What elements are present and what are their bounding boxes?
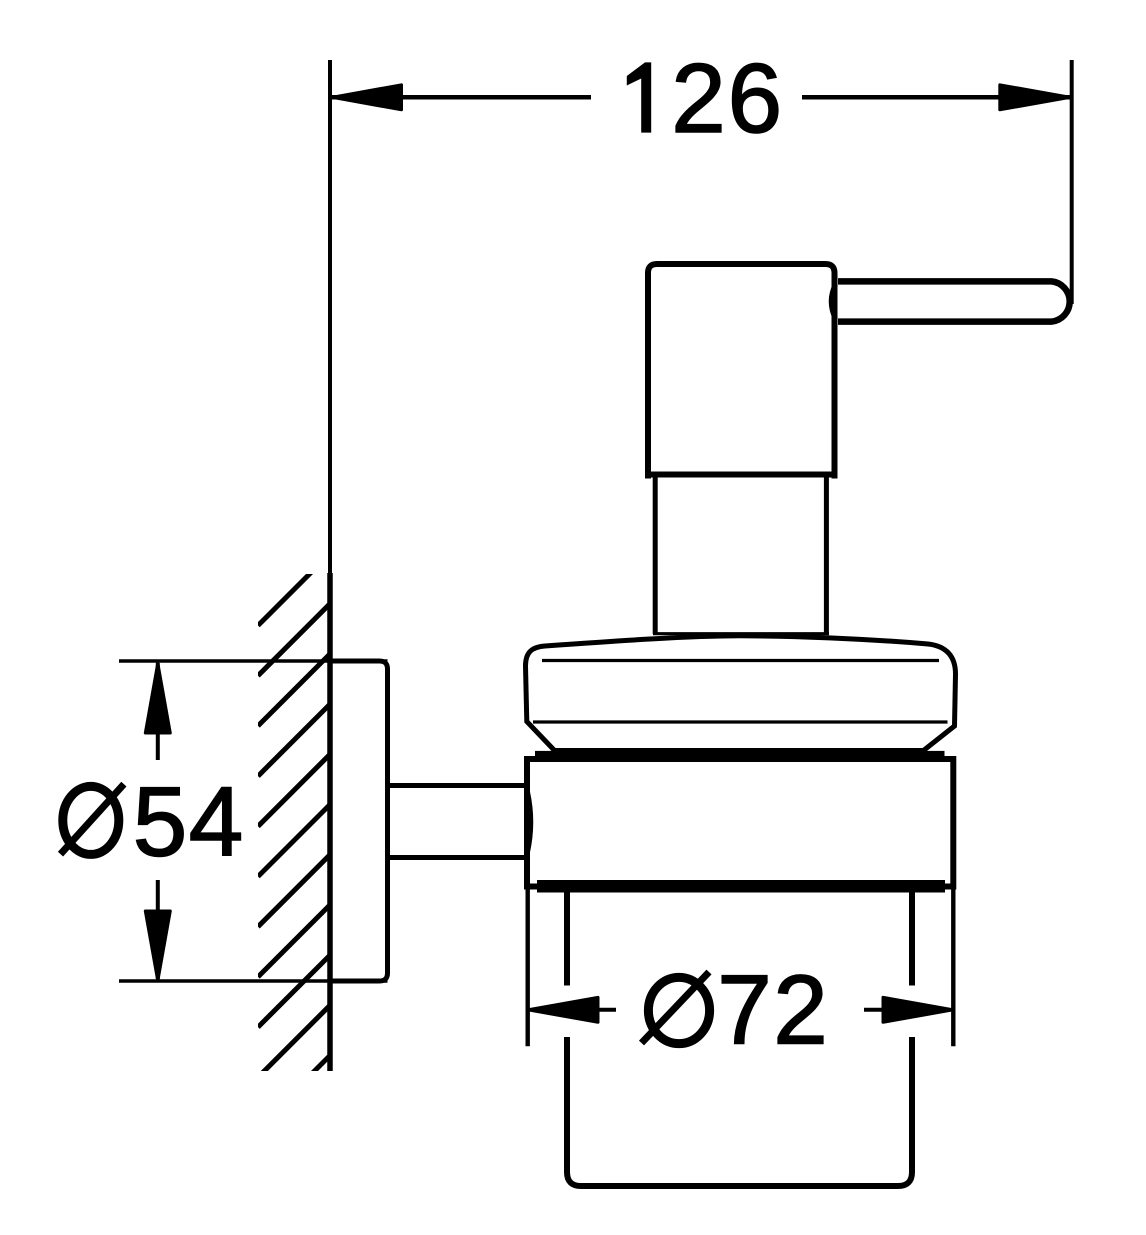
bottle shoulder inner line lower (533, 720, 948, 723)
dimension D54: down arrowhead (145, 911, 170, 981)
dimension D54: dimension line segments (156, 663, 160, 760)
dimension D54: bottom extension line (119, 979, 388, 983)
wall plate (330, 661, 388, 981)
glass bottle shoulder (526, 636, 956, 751)
dimension D72: diameter symbol slash (642, 972, 710, 1043)
holder ring top contact bar (535, 751, 945, 758)
arm-ring fillet arc (528, 792, 531, 852)
lever hub arc on head edge (831, 284, 835, 319)
dimension D72: left arrowhead (528, 997, 598, 1022)
wall line (328, 60, 332, 573)
holder ring bottom contact bar (537, 880, 945, 893)
dimension 126: right arrowhead (1000, 85, 1071, 110)
pump head (648, 264, 835, 475)
dimension D54: diameter symbol circle (63, 786, 119, 854)
holder ring outline (527, 759, 953, 887)
dimension D72: right arrowhead (883, 997, 953, 1022)
holder arm (388, 783, 528, 788)
dimension D72: dimension line segments (598, 1008, 616, 1012)
wall hatching (258, 552, 332, 1128)
dimension 126: right extension line (1070, 60, 1074, 304)
dimension D54: diameter symbol slash (61, 784, 124, 854)
svg-text:54: 54 (133, 767, 245, 877)
dimension 126: dimension line (332, 95, 591, 100)
bottle shoulder inner line upper (542, 659, 939, 662)
pump head bottom corner tabs (645, 474, 651, 479)
svg-text:26: 26 (671, 43, 784, 153)
pump body (655, 477, 826, 634)
dimension 126: value text (627, 62, 651, 132)
pump lever (838, 281, 1070, 321)
dimension D72: left extension stub (526, 886, 530, 1047)
glass cup upper wall right (909, 892, 915, 986)
dimension D72: right extension stub (951, 886, 955, 1047)
dimension D54: up arrowhead (145, 663, 170, 733)
dimension D54: top extension line (119, 659, 388, 663)
dimension 126: left arrowhead (332, 85, 402, 110)
glass cup upper wall left (564, 892, 570, 986)
dimension D72: diameter symbol circle (648, 977, 709, 1043)
glass cup body (567, 1037, 912, 1186)
svg-text:72: 72 (717, 955, 829, 1065)
